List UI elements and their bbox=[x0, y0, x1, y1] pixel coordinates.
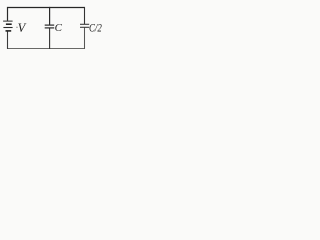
svg-text:C/2: C/2 bbox=[89, 20, 102, 34]
svg-text:C: C bbox=[55, 22, 63, 34]
